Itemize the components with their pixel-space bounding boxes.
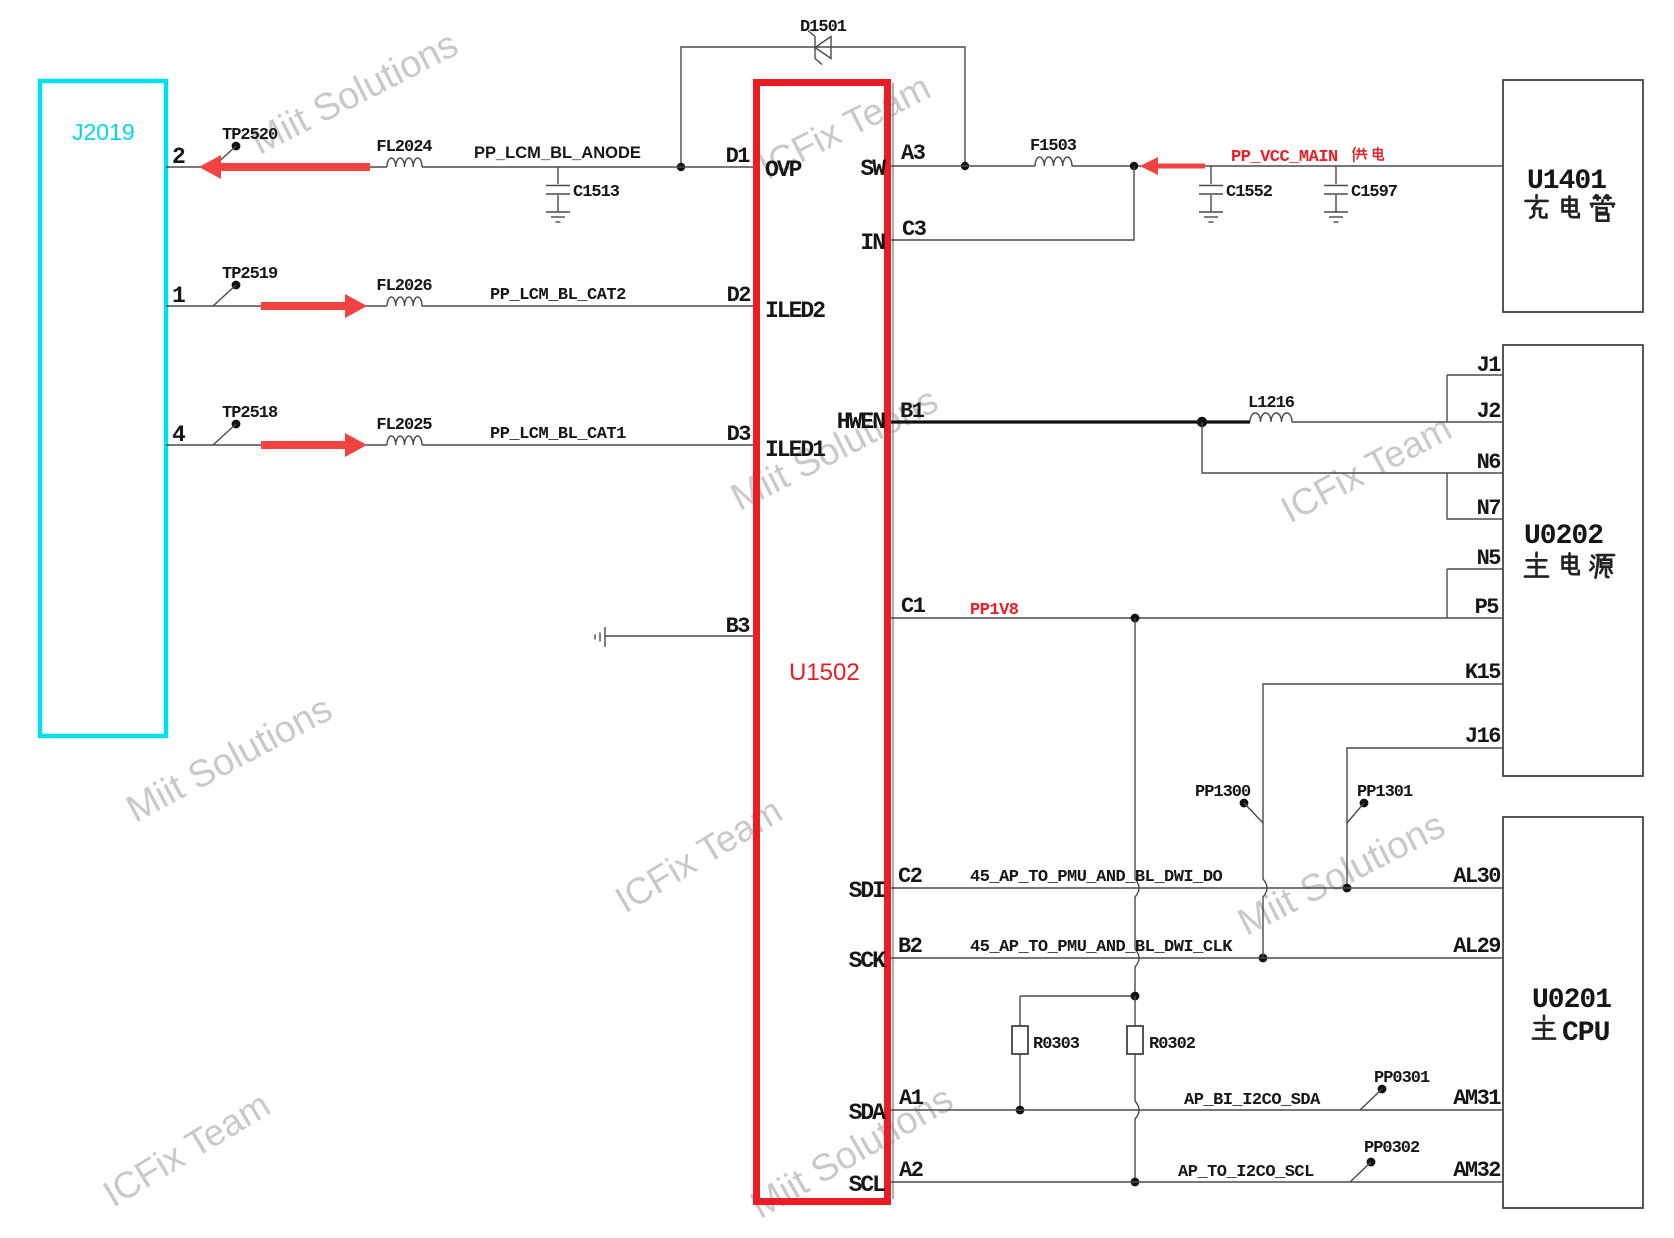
U1502 red highlight box — [757, 83, 888, 1202]
test point PP1301 — [1360, 799, 1369, 808]
svg-text:4: 4 — [172, 422, 186, 448]
ferrite bead FL2024 — [387, 158, 422, 167]
node link junction — [1131, 992, 1140, 1001]
svg-text:J2019: J2019 — [72, 119, 135, 145]
svg-text:Miit Solutions: Miit Solutions — [244, 23, 464, 163]
wire J16 — [1347, 748, 1503, 888]
svg-text:AP_BI_I2CO_SDA: AP_BI_I2CO_SDA — [1184, 1091, 1321, 1110]
svg-text:K15: K15 — [1465, 660, 1501, 685]
capacitor C1513 with ground — [557, 167, 559, 184]
svg-text:PP1V8: PP1V8 — [970, 601, 1019, 620]
node SW/D1501 junction — [961, 162, 969, 170]
svg-text:F1503: F1503 — [1030, 137, 1077, 156]
svg-text:ICFix Team: ICFix Team — [608, 790, 789, 921]
capacitor C1597 with ground — [1335, 166, 1337, 184]
fuse F1503 — [1035, 157, 1072, 166]
wire SW/A3 to U1401 PP_VCC_MAIN — [891, 165, 1503, 167]
red arrow left (pin2) — [199, 155, 370, 179]
wire PP_LCM_BL_CAT2 pin1 to ILED2 — [166, 305, 753, 307]
svg-text:D3: D3 — [727, 422, 752, 447]
svg-text:SDI: SDI — [849, 878, 886, 904]
diode D1501 — [800, 18, 847, 65]
svg-text:TP2518: TP2518 — [222, 404, 278, 423]
svg-text:A1: A1 — [899, 1086, 924, 1111]
svg-text:D1: D1 — [726, 144, 751, 169]
svg-text:C1597: C1597 — [1351, 183, 1398, 202]
svg-text:J1: J1 — [1477, 353, 1502, 378]
IC U0201 main CPU box — [1503, 817, 1643, 1208]
svg-text:N6: N6 — [1477, 450, 1501, 475]
svg-text:FL2025: FL2025 — [376, 416, 432, 435]
connector J2019 — [40, 81, 166, 736]
test point PP0301 — [1378, 1085, 1387, 1094]
svg-text:TP2520: TP2520 — [222, 126, 278, 145]
red arrow right (pin4) — [261, 433, 367, 457]
wire hop R0302 over SDA — [1135, 1101, 1139, 1182]
svg-text:D2: D2 — [727, 283, 751, 308]
wire PP1V8 branch down to resistors — [1134, 618, 1136, 879]
node IN branch junction — [1130, 162, 1138, 170]
svg-text:TP2519: TP2519 — [222, 265, 278, 284]
svg-text:OVP: OVP — [765, 157, 802, 183]
svg-text:R0303: R0303 — [1033, 1035, 1080, 1054]
resistor R0302 — [1134, 996, 1136, 1101]
wire hop K15 over AL30 — [1263, 879, 1267, 949]
svg-text:A3: A3 — [901, 141, 926, 166]
svg-text:U1502: U1502 — [789, 659, 860, 686]
node R0303 to SDA junction — [1016, 1106, 1025, 1115]
svg-text:Miit Solutions: Miit Solutions — [120, 688, 339, 831]
svg-text:PP0301: PP0301 — [1374, 1069, 1430, 1088]
wire HWEN/B1 bold — [891, 420, 1250, 423]
svg-text:C2: C2 — [898, 864, 922, 889]
svg-text:B2: B2 — [898, 934, 922, 959]
pin stub J1 — [1447, 375, 1503, 422]
test point TP2520 — [232, 142, 241, 151]
svg-text:ICFix Team: ICFix Team — [96, 1084, 277, 1215]
op IC U1502 backlight driver box (underlying outline) — [892, 83, 894, 1199]
wire branch to N6 — [1202, 422, 1503, 473]
svg-text:N5: N5 — [1477, 546, 1502, 571]
svg-text:B1: B1 — [900, 399, 925, 424]
svg-text:U1401: U1401 — [1527, 166, 1606, 197]
test point TP2518 — [232, 420, 241, 429]
ground (sideways) — [604, 627, 606, 647]
svg-text:PP_LCM_BL_CAT1: PP_LCM_BL_CAT1 — [490, 425, 626, 444]
wire SCK B2 to AL29 — [891, 957, 1503, 959]
test point TP2519 — [232, 281, 241, 290]
svg-text:C1513: C1513 — [573, 183, 620, 202]
svg-text:AL30: AL30 — [1453, 864, 1500, 889]
svg-text:A2: A2 — [899, 1158, 923, 1183]
svg-text:J16: J16 — [1465, 724, 1500, 749]
svg-text:R0302: R0302 — [1149, 1035, 1196, 1054]
svg-text:C3: C3 — [902, 217, 927, 242]
wire C1 PP1V8 to P5 — [891, 617, 1503, 619]
node J16 to AL30 junction — [1343, 884, 1352, 893]
wire B3 to ground — [605, 635, 753, 637]
svg-text:SCK: SCK — [849, 948, 887, 974]
node R0302 to SCL junction — [1131, 1178, 1140, 1187]
svg-text:SDA: SDA — [849, 1100, 887, 1126]
svg-text:AM31: AM31 — [1453, 1086, 1501, 1111]
red arrow right (pin1) — [261, 294, 367, 318]
wire SDI C2 to AL30 — [891, 887, 1503, 889]
svg-text:SCL: SCL — [849, 1172, 886, 1198]
svg-text:AP_TO_I2CO_SCL: AP_TO_I2CO_SCL — [1178, 1163, 1314, 1182]
svg-text:CPU: CPU — [1562, 1018, 1610, 1049]
test point PP0302 — [1367, 1158, 1376, 1167]
svg-text:45_AP_TO_PMU_AND_BL_DWI_DO: 45_AP_TO_PMU_AND_BL_DWI_DO — [970, 868, 1223, 887]
svg-text:C1: C1 — [901, 594, 926, 619]
node PP1V8 branch junction — [1131, 614, 1140, 623]
svg-text:FL2026: FL2026 — [376, 277, 432, 296]
svg-text:PP0302: PP0302 — [1364, 1139, 1420, 1158]
wire PP_LCM_BL_CAT1 pin4 to ILED1 — [166, 444, 753, 446]
svg-text:N7: N7 — [1477, 496, 1501, 521]
svg-text:IN: IN — [860, 230, 885, 256]
svg-text:2: 2 — [172, 144, 185, 170]
svg-text:D1501: D1501 — [800, 18, 847, 37]
svg-text:ILED2: ILED2 — [765, 298, 825, 324]
wire resistor top link — [1020, 995, 1135, 997]
ferrite bead FL2026 — [387, 297, 422, 306]
wire IN/C3 — [891, 166, 1134, 240]
svg-text:B3: B3 — [726, 614, 751, 639]
node OVP/D1 junction — [677, 163, 685, 171]
svg-text:PP1300: PP1300 — [1195, 783, 1251, 802]
svg-text:FL2024: FL2024 — [376, 138, 432, 157]
svg-text:J2: J2 — [1477, 399, 1501, 424]
wire PP_LCM_BL_ANODE pin2 to OVP — [166, 166, 753, 168]
pin stub N7 — [1447, 473, 1503, 519]
wire hop over AL29 — [1135, 949, 1139, 996]
wire SCL A2 to AM32 — [891, 1181, 1503, 1183]
wire K15 — [1263, 684, 1503, 879]
svg-text:PP_LCM_BL_ANODE: PP_LCM_BL_ANODE — [474, 144, 641, 162]
svg-text:Miit Solutions: Miit Solutions — [1231, 804, 1451, 944]
test point PP1300 — [1240, 799, 1249, 808]
node HWEN branch junction — [1197, 417, 1207, 427]
wire hop over AL30 — [1135, 879, 1139, 949]
svg-text:AM32: AM32 — [1453, 1158, 1500, 1183]
pin stub N5 — [1447, 569, 1503, 618]
svg-text:PP_LCM_BL_CAT2: PP_LCM_BL_CAT2 — [490, 286, 626, 305]
svg-text:L1216: L1216 — [1248, 394, 1295, 413]
wire L1216 to J2 — [1292, 421, 1503, 423]
svg-text:1: 1 — [172, 283, 185, 309]
ferrite bead FL2025 — [387, 436, 422, 445]
IC U0202 main power box — [1503, 345, 1643, 776]
wire OVP top loop to SW — [681, 47, 965, 167]
svg-text:HWEN: HWEN — [837, 409, 885, 435]
wire SDA A1 to AM31 — [891, 1109, 1503, 1111]
inductor L1216 — [1250, 413, 1292, 422]
svg-text:U0202: U0202 — [1524, 521, 1603, 552]
resistor R0303 — [1019, 996, 1021, 1110]
svg-text:AL29: AL29 — [1453, 934, 1500, 959]
svg-text:SW: SW — [860, 156, 886, 182]
svg-text:ILED1: ILED1 — [765, 437, 825, 463]
svg-text:45_AP_TO_PMU_AND_BL_DWI_CLK: 45_AP_TO_PMU_AND_BL_DWI_CLK — [970, 938, 1233, 957]
node K15 to AL29 junction — [1259, 954, 1268, 963]
svg-text:PP_VCC_MAIN: PP_VCC_MAIN — [1231, 148, 1338, 167]
capacitor C1552 with ground — [1210, 166, 1212, 184]
IC U1401 charging IC box — [1503, 80, 1643, 312]
svg-text:P5: P5 — [1475, 595, 1500, 620]
svg-text:U0201: U0201 — [1532, 985, 1611, 1016]
svg-text:C1552: C1552 — [1226, 183, 1273, 202]
svg-text:PP1301: PP1301 — [1357, 783, 1413, 802]
red arrow PP_VCC_MAIN — [1140, 157, 1205, 175]
svg-text:ICFix Team: ICFix Team — [1274, 407, 1458, 531]
